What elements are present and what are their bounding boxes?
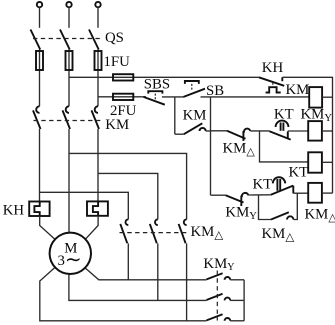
wire KM-Y contact 3 out	[230, 320, 244, 322]
svg-text:KT: KT	[253, 177, 273, 193]
timer KT NC delayed contact	[271, 177, 294, 195]
contactor KM-Y main contact 2	[207, 294, 231, 301]
wire KM hold out	[206, 130, 211, 132]
svg-text:KH: KH	[262, 60, 284, 76]
svg-text:SB: SB	[206, 83, 224, 99]
thermal relay KH heater C	[87, 201, 108, 215]
pushbutton SB start	[184, 81, 206, 97]
svg-text:KM△: KM△	[191, 224, 225, 242]
contactor KM-Y linkage	[216, 271, 218, 321]
wire to KM-Y coil	[288, 130, 308, 132]
wire L3 drop	[97, 7, 99, 28]
svg-text:KMY: KMY	[203, 256, 234, 273]
contactor KM-Y main contact 3	[207, 314, 231, 321]
fuse 2FU-1	[113, 74, 133, 80]
contactor KM main contact C	[92, 106, 100, 129]
contact KM hold	[184, 123, 206, 134]
wire delta branch from A	[40, 192, 129, 219]
wire star point bar	[243, 280, 245, 321]
svg-text:KM△: KM△	[305, 207, 335, 225]
wire node B drop	[210, 97, 212, 195]
svg-text:KM: KM	[183, 107, 207, 123]
wire KM-Y contact 2 out	[230, 299, 244, 301]
svg-text:KMY: KMY	[301, 107, 333, 125]
switch QS linkage	[33, 38, 103, 40]
wire KM-Y coil out	[322, 130, 333, 132]
svg-text:KM△: KM△	[262, 226, 296, 244]
wire KM-delta coil out	[322, 192, 333, 194]
svg-text:KT: KT	[274, 107, 294, 123]
wire KM-delta hold branch down	[259, 195, 272, 220]
svg-text:1FU: 1FU	[104, 54, 131, 70]
wire phase C mid	[97, 129, 99, 202]
wire motor bottom left to star line 3	[40, 267, 207, 321]
wire L2 drop	[68, 7, 70, 28]
wire phase B mid	[68, 129, 70, 235]
wire KM-Y contact 1 out	[230, 279, 244, 281]
svg-text:KM: KM	[105, 117, 129, 133]
wire control rail top	[69, 76, 259, 78]
wire to KM-delta coil	[293, 192, 308, 194]
terminal L3	[95, 2, 100, 7]
wire motor lead W1	[85, 216, 99, 240]
svg-text:3∼: 3∼	[58, 249, 82, 271]
coil KT	[308, 152, 322, 172]
wire branch4 lead	[211, 194, 226, 196]
contactor KM main contact B	[63, 106, 71, 129]
svg-text:KT: KT	[289, 164, 309, 180]
wire KM hold lead	[175, 133, 184, 135]
contactor KM main contact A	[33, 106, 41, 129]
terminal L1	[37, 2, 42, 7]
fuse 1FU phase B	[66, 51, 73, 70]
wire delta branch from B	[69, 153, 187, 219]
wire phase C fuse section	[97, 50, 99, 107]
svg-text:QS: QS	[105, 30, 124, 46]
terminal L2	[66, 2, 71, 7]
contactor KM-delta main contact A	[120, 219, 128, 243]
contactor KM-delta main contact C	[179, 219, 187, 243]
wire KT coil branch	[260, 131, 309, 162]
wire branch2 lead	[211, 130, 228, 132]
svg-text:KH: KH	[3, 203, 25, 219]
wire KM coil out	[322, 96, 332, 98]
contact KM-delta hold	[271, 212, 293, 219]
wire delta contact C lower	[186, 243, 188, 320]
coil KM-Y	[308, 121, 322, 141]
wire right rail	[282, 77, 332, 193]
wire L1 drop	[39, 7, 41, 28]
switch QS blade pole 2	[60, 30, 70, 50]
coil KM-delta	[308, 183, 322, 203]
wire phase A fuse section	[39, 50, 41, 107]
contactor KM-Y main contact 1	[207, 273, 231, 280]
wire node A drop	[174, 97, 176, 134]
contact KM-delta NC interlock	[227, 129, 250, 141]
wire KT coil out	[322, 161, 333, 163]
switch QS blade pole 1	[31, 30, 41, 50]
fuse 2FU-2	[113, 94, 133, 100]
wire branch4 mid	[249, 194, 271, 196]
svg-text:KM△: KM△	[223, 141, 256, 159]
contactor KM-delta linkage	[120, 232, 190, 234]
wire motor bottom mid to star line 2	[69, 273, 207, 301]
wire phase B fuse section	[68, 50, 70, 107]
thermal relay KH heater A	[29, 202, 49, 217]
timer KT NO delayed contact	[269, 121, 290, 140]
contactor KM linkage	[34, 120, 103, 122]
svg-text:2FU: 2FU	[110, 103, 137, 119]
wire motor lead U1	[40, 216, 56, 240]
wire branch2 mid	[250, 130, 269, 132]
wire KM-delta hold up	[293, 193, 297, 219]
pushbutton SBS stop	[144, 91, 165, 105]
thermal relay KH contact	[259, 77, 284, 92]
switch QS blade pole 3	[89, 30, 99, 50]
fuse 1FU phase C	[95, 51, 102, 70]
wire delta branch from C	[98, 173, 158, 219]
wire delta contact B lower	[157, 243, 159, 300]
wire control rail 2	[98, 96, 309, 98]
coil KM	[309, 87, 322, 108]
svg-text:SBS: SBS	[144, 77, 170, 93]
contactor KM-delta main contact B	[150, 219, 158, 243]
fuse 1FU phase A	[36, 51, 43, 70]
contact KM-Y NC interlock	[226, 193, 249, 206]
wire delta contact A lower	[127, 243, 129, 279]
svg-text:KMY: KMY	[225, 205, 257, 223]
svg-text:KM: KM	[286, 82, 310, 98]
wire phase A mid	[39, 129, 41, 202]
motor M	[50, 233, 91, 274]
wire motor bottom right to star line 1	[84, 267, 207, 280]
